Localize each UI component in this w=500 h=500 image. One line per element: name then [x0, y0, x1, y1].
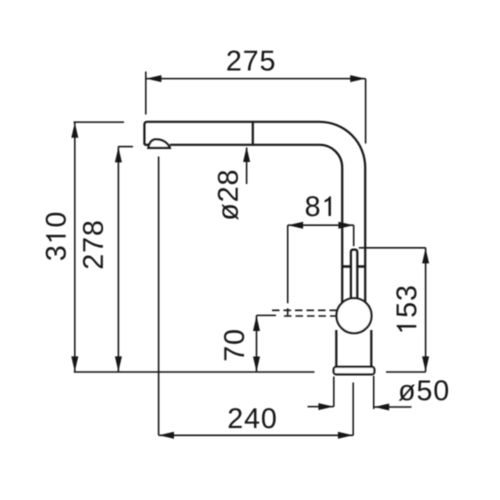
- arrow 278 down: [115, 356, 122, 371]
- arrow 240 left: [159, 432, 174, 439]
- label 81: [306, 196, 331, 216]
- arrow 310 down: [71, 356, 78, 371]
- dim line 310: [74, 122, 76, 371]
- arrowheads: [71, 75, 429, 439]
- dim line 275: [146, 78, 366, 80]
- dim line 278: [117, 147, 119, 372]
- label 278: [83, 221, 103, 268]
- label 275: [227, 50, 274, 70]
- extension line o50 right: [373, 376, 375, 409]
- extension line 275 left: [145, 72, 147, 115]
- spout top + outer bend + down tube right edge: [144, 122, 365, 303]
- label 153: [396, 286, 416, 331]
- counter deck line right: [386, 371, 426, 373]
- lever rod: [351, 250, 357, 301]
- arrow 310 up: [71, 123, 78, 138]
- ball joint: [337, 298, 372, 333]
- label o28: [218, 171, 239, 220]
- label 310: [46, 213, 66, 260]
- extension line 81 left: [287, 225, 289, 316]
- extension line 278 top: [118, 146, 133, 148]
- leader line o28: [246, 148, 248, 185]
- extension line 81 right: [353, 225, 355, 246]
- arrow 70 down: [253, 357, 260, 372]
- arrow 153 up: [422, 248, 429, 263]
- extension line 70 top: [257, 314, 277, 316]
- leader line o50 right: [374, 406, 412, 408]
- arrow 153 down: [422, 356, 429, 371]
- leader line o50 left: [308, 406, 334, 408]
- hidden hose dashed line upper: [272, 309, 337, 311]
- arrow 278 up: [115, 147, 122, 162]
- extension line 275 right: [365, 79, 367, 144]
- arrow 70 up: [253, 316, 260, 331]
- dim line 70: [256, 315, 258, 372]
- arrow o50 left: [318, 403, 333, 410]
- spout bottom left stub: [144, 144, 148, 146]
- body joint line across tube: [342, 265, 365, 268]
- spout bottom + inner bend + down tube left edge: [170, 145, 342, 303]
- extension line 240 right (body axis): [352, 383, 354, 436]
- counter deck line left: [74, 371, 315, 373]
- extension line o50 left: [333, 377, 335, 407]
- label o50: [399, 380, 448, 401]
- dim line 153: [425, 248, 427, 372]
- faucet outline: [144, 122, 374, 375]
- dimension thin lines: [74, 72, 426, 436]
- extension line 153 top: [359, 247, 426, 249]
- spray head joint line: [252, 122, 254, 146]
- extension line 240 left (spout axis): [158, 157, 160, 436]
- dim line 240: [159, 434, 354, 436]
- arrow o50 right: [374, 404, 389, 411]
- label 70: [224, 330, 244, 360]
- arrow 275 left: [146, 75, 161, 82]
- arrow 240 right: [338, 432, 353, 439]
- arrow o28 up: [243, 147, 250, 162]
- aerator bump: [148, 139, 170, 148]
- dim line 81: [288, 224, 354, 226]
- label 240: [229, 408, 276, 428]
- arrow 81 right: [338, 222, 353, 229]
- arrow 81 left: [288, 222, 303, 229]
- arrow 275 right: [350, 75, 365, 82]
- body cylinder: [336, 330, 371, 367]
- hidden hose dashed line lower: [284, 315, 337, 317]
- extension line 310 top: [74, 121, 125, 123]
- base flange: [334, 367, 375, 375]
